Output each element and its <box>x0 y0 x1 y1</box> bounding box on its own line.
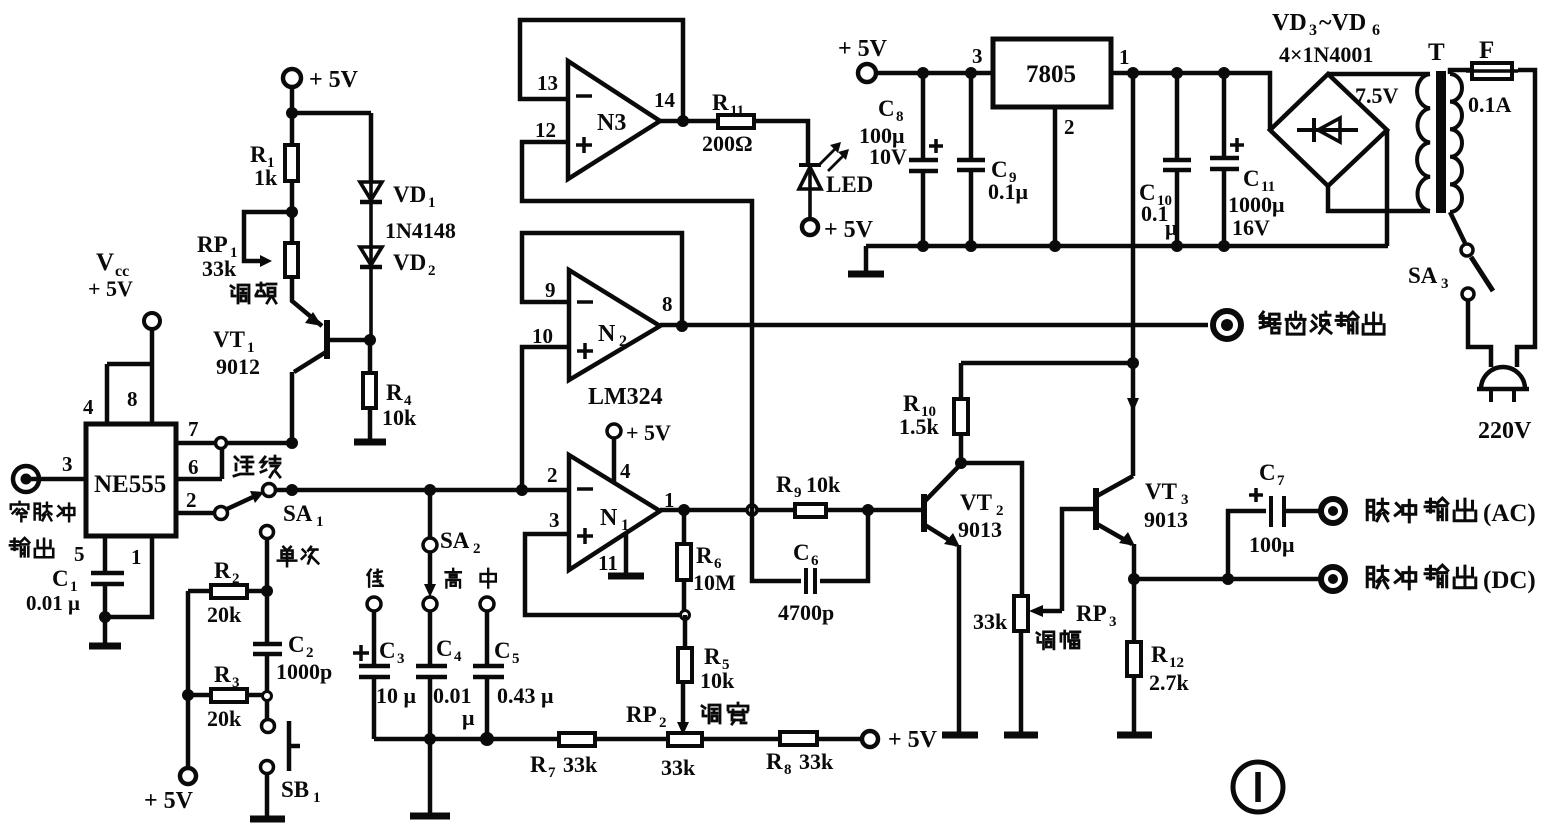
junction C10 <box>1171 67 1183 79</box>
+5V terminal top <box>283 69 301 87</box>
svg-text:8: 8 <box>127 387 138 411</box>
wire pin 4 <box>612 438 617 482</box>
svg-text:R: R <box>214 558 231 583</box>
svg-text:1: 1 <box>1119 45 1130 69</box>
capacitor C11 electrolytic <box>1210 73 1239 246</box>
wire Vcc to pins 4,8 <box>107 329 152 424</box>
capacitor C6 loop <box>752 510 868 581</box>
wire pin10 riser from main line <box>522 347 569 490</box>
potentiometer RP3 <box>1014 596 1028 631</box>
svg-text:3: 3 <box>397 651 405 667</box>
label 连续 (continuous) <box>234 456 280 477</box>
svg-text:C: C <box>379 638 396 663</box>
junction C11 <box>1218 67 1230 79</box>
transistor VT3 9013 <box>1096 363 1135 579</box>
contact circle pin2 (SA1 pole) <box>215 507 228 520</box>
wiper arrow RP1 <box>260 255 272 267</box>
op-amp N2 <box>569 270 660 380</box>
svg-text:16V: 16V <box>1232 215 1270 240</box>
svg-text:(AC): (AC) <box>1483 500 1536 527</box>
+5V terminal bus right <box>862 731 878 747</box>
svg-text:7.5V: 7.5V <box>1355 83 1399 108</box>
svg-text:(DC): (DC) <box>1483 567 1536 594</box>
junction C7 tap <box>1222 573 1234 585</box>
wire pin 1 down and left <box>105 536 152 617</box>
svg-text:VD: VD <box>393 250 426 275</box>
svg-text:LED: LED <box>826 172 873 197</box>
svg-text:6: 6 <box>188 455 199 479</box>
terminal pulse output DC <box>1321 567 1345 591</box>
svg-text:R: R <box>1151 642 1168 667</box>
junction R3 left <box>182 689 194 701</box>
wire RP1 wiper loop <box>244 212 292 261</box>
capacitor C5 <box>473 611 504 739</box>
svg-text:12: 12 <box>1169 655 1184 671</box>
capacitor C8 electrolytic <box>909 73 938 246</box>
wire N3 pin12 to N1 output <box>522 142 752 510</box>
resistor R9 <box>795 504 826 517</box>
junction top branch <box>286 107 298 119</box>
svg-text:1000p: 1000p <box>276 659 332 684</box>
resistor R11 <box>718 115 754 128</box>
resistor R6 <box>682 510 687 615</box>
label 脉冲输出 (AC) <box>1367 498 1536 527</box>
svg-text:11: 11 <box>730 103 744 119</box>
wire SA1 to main line <box>276 488 292 493</box>
contact circle SA1 throw <box>263 484 276 497</box>
svg-text:C: C <box>1243 166 1260 191</box>
potentiometer RP1 <box>285 243 298 277</box>
junction pin7/collector <box>286 437 298 449</box>
svg-text:1: 1 <box>313 790 321 806</box>
label VD3~VD6 <box>1272 10 1380 39</box>
svg-text:1.5k: 1.5k <box>899 414 940 439</box>
svg-text:7: 7 <box>548 765 556 781</box>
svg-text:2: 2 <box>619 333 627 350</box>
svg-text:2: 2 <box>473 541 481 557</box>
svg-text:+ 5V: + 5V <box>144 788 194 814</box>
wire 7805 pin2 to bus <box>1053 107 1058 246</box>
resistor R12 <box>1132 579 1137 733</box>
svg-text:VT: VT <box>1145 479 1177 504</box>
junction SA2 tap <box>424 484 436 496</box>
svg-text:4700p: 4700p <box>778 600 834 625</box>
wire +5V down <box>290 87 295 145</box>
svg-text:10 μ: 10 μ <box>376 683 417 708</box>
wire primary top to fuse <box>1450 70 1472 74</box>
svg-text:9013: 9013 <box>1144 507 1188 532</box>
wire sawtooth output line <box>660 323 1208 328</box>
svg-text:0.1A: 0.1A <box>1468 92 1512 117</box>
svg-text:0.1μ: 0.1μ <box>988 179 1029 204</box>
resistor R10 <box>959 363 964 463</box>
transformer core <box>1436 71 1446 213</box>
svg-text:3: 3 <box>1109 614 1117 630</box>
svg-text:C: C <box>494 638 511 663</box>
svg-text:R: R <box>250 142 267 167</box>
svg-text:R: R <box>903 391 920 416</box>
resistor R1 <box>285 145 298 181</box>
junction N3 output <box>677 115 689 127</box>
svg-text:10k: 10k <box>806 472 841 497</box>
svg-text:11: 11 <box>598 551 618 575</box>
terminal 单次 (single) <box>261 526 274 539</box>
capacitor C1 <box>91 573 124 617</box>
svg-text:R: R <box>530 752 547 777</box>
svg-text:C: C <box>52 566 69 591</box>
svg-text:3: 3 <box>1181 492 1189 508</box>
svg-text:2: 2 <box>547 463 558 487</box>
svg-text:33k: 33k <box>202 256 237 281</box>
svg-text:RP: RP <box>197 232 228 257</box>
svg-text:μ: μ <box>462 705 475 730</box>
ground R12 <box>1117 732 1152 739</box>
svg-text:SA: SA <box>283 501 313 526</box>
svg-text:R: R <box>776 472 793 497</box>
svg-text:12: 12 <box>535 118 556 142</box>
svg-text:33k: 33k <box>563 752 598 777</box>
svg-text:1: 1 <box>131 545 142 569</box>
ground R4 <box>354 439 386 446</box>
ground RP3 <box>1004 732 1038 739</box>
svg-text:1N4148: 1N4148 <box>385 218 456 243</box>
svg-text:10k: 10k <box>382 405 417 430</box>
op-amp N1 <box>569 455 660 570</box>
svg-text:~VD: ~VD <box>1319 10 1366 36</box>
plug 220V <box>1477 367 1529 402</box>
junction R5/R6/pin3 <box>681 611 690 620</box>
wire left rail R2-R3-+5V <box>186 591 191 768</box>
wire VT2 collector to RP3 <box>961 463 1022 596</box>
svg-text:8: 8 <box>784 762 792 778</box>
arrow on +V feed line <box>1127 398 1139 412</box>
svg-text:10V: 10V <box>869 144 907 169</box>
svg-text:4: 4 <box>454 649 462 665</box>
transformer T secondary winding <box>1417 74 1430 211</box>
label 调频 (frequency adjust) <box>231 283 276 303</box>
label 调宽 (width adjust) <box>702 703 748 724</box>
switch SA2 <box>428 490 433 538</box>
IC NE555 <box>86 424 176 536</box>
svg-text:3: 3 <box>1309 22 1317 39</box>
svg-text:5: 5 <box>74 542 85 566</box>
junction +V line <box>1127 357 1139 369</box>
terminal sawtooth output <box>1213 311 1241 339</box>
svg-text:SA: SA <box>1408 263 1438 288</box>
label 脉冲输出 (DC) <box>1367 565 1536 594</box>
svg-text:R: R <box>696 543 713 568</box>
wire main line to N1 pin2 <box>292 488 569 493</box>
svg-text:9012: 9012 <box>216 354 260 379</box>
svg-text:LM324: LM324 <box>588 384 663 410</box>
svg-text:RP: RP <box>1076 601 1107 626</box>
svg-text:2: 2 <box>659 715 667 731</box>
op-amp N3 <box>568 61 660 179</box>
switch SA1 blade <box>227 497 253 509</box>
label 锯齿波输出 (sawtooth output) <box>1260 312 1384 334</box>
pin 11 ground <box>624 533 629 574</box>
svg-text:N: N <box>598 321 616 347</box>
svg-text:1000μ: 1000μ <box>1228 192 1285 217</box>
capacitor C9 <box>957 73 985 246</box>
svg-text:2.7k: 2.7k <box>1149 670 1190 695</box>
wire N2 feedback loop pin9 <box>522 233 682 326</box>
RP3 wiper arrow <box>1040 609 1062 614</box>
wire pin7 contact to VT1 collector line <box>227 441 292 446</box>
junction N2 pin10 riser <box>516 484 528 496</box>
svg-text:N: N <box>600 505 618 531</box>
svg-text:NE555: NE555 <box>94 471 166 498</box>
svg-text:20k: 20k <box>207 706 242 731</box>
junction SA1/VT1 <box>286 484 298 496</box>
svg-text:9: 9 <box>794 485 802 501</box>
resistor R8 <box>780 732 817 745</box>
terminal pulse output AC <box>1321 499 1345 523</box>
svg-text:33k: 33k <box>973 609 1008 634</box>
svg-text:10: 10 <box>532 324 553 348</box>
bridge diode symbol <box>1297 118 1358 142</box>
wire SA3 to plug <box>1468 300 1491 367</box>
junction R3/C2/SB1 small contact <box>263 692 272 701</box>
svg-text:3: 3 <box>232 675 240 691</box>
svg-text:SA: SA <box>440 528 470 553</box>
wire fuse to right rail <box>1517 70 1535 367</box>
wire R11 to LED <box>754 121 808 164</box>
svg-text:+ 5V: + 5V <box>824 217 874 243</box>
transistor VT2 9013 <box>924 465 960 733</box>
wire pin 6 <box>176 448 222 479</box>
resistor R2 <box>188 589 267 594</box>
svg-text:μ: μ <box>1165 215 1178 240</box>
diode VD2 <box>360 247 382 340</box>
svg-text:9: 9 <box>545 278 556 302</box>
svg-text:V: V <box>96 249 114 276</box>
svg-text:2: 2 <box>186 488 197 512</box>
svg-text:R: R <box>766 749 783 774</box>
wire bridge AC top to secondary <box>1328 72 1430 77</box>
bridge rectifier VD3-VD6 <box>1270 74 1387 186</box>
wire pin 5 to C1 <box>103 536 108 571</box>
svg-text:4×1N4001: 4×1N4001 <box>1279 42 1373 67</box>
svg-text:N3: N3 <box>597 110 626 136</box>
junction C6 right / base <box>862 504 874 516</box>
svg-text:VD: VD <box>393 182 426 207</box>
pushbutton SB1 <box>265 701 270 719</box>
svg-text:R: R <box>712 90 729 115</box>
label 输出 (output) <box>10 538 53 557</box>
svg-text:14: 14 <box>654 88 676 112</box>
transistor VT1 9012 <box>292 277 370 443</box>
junction C10 ground <box>1171 240 1183 252</box>
pin 4 +5V terminal <box>607 424 621 438</box>
terminal 中 (middle) <box>480 597 494 611</box>
ground below C1 <box>103 617 108 645</box>
LED arrows <box>821 146 846 170</box>
resistor R3 <box>188 693 262 698</box>
wire 单次 down to R2 junction <box>265 539 270 591</box>
wire +5V rail to 7805 <box>876 71 993 76</box>
junction VT1 base / VD2 / R4 <box>364 334 376 346</box>
svg-text:+ 5V: + 5V <box>309 67 359 93</box>
terminal 低 (low) <box>367 597 381 611</box>
svg-text:3: 3 <box>62 452 73 476</box>
wire primary bottom to SA3 <box>1450 212 1465 243</box>
capacitor C7 <box>1228 511 1320 579</box>
svg-text:3: 3 <box>972 44 983 68</box>
svg-text:R: R <box>704 644 721 669</box>
junction C11 ground <box>1218 240 1230 252</box>
capacitor C4 <box>416 611 447 739</box>
capacitor C3 electrolytic <box>359 611 390 739</box>
label 调幅 (amplitude adjust) <box>1037 631 1080 649</box>
fuse F <box>1466 63 1518 79</box>
ground SB1 <box>250 816 285 823</box>
svg-text:7: 7 <box>1277 473 1285 489</box>
wire N1 output <box>660 508 795 513</box>
svg-text:5: 5 <box>512 651 520 667</box>
wire R1 to RP1 <box>290 181 295 243</box>
svg-text:R: R <box>214 662 231 687</box>
svg-text:2: 2 <box>1064 115 1075 139</box>
junction N3 pin12 line / C6 left <box>747 505 757 515</box>
wire emitter node to DC terminal <box>1134 577 1320 582</box>
svg-text:220V: 220V <box>1478 418 1532 444</box>
terminal 高 (high) <box>423 597 437 611</box>
wire 7805 output rail <box>1111 73 1270 130</box>
junction C8 <box>917 67 929 79</box>
junction C9 <box>965 67 977 79</box>
svg-text:13: 13 <box>537 71 558 95</box>
regulator 7805 <box>993 39 1111 107</box>
capacitor C2 <box>253 591 282 692</box>
svg-text:33k: 33k <box>661 755 696 780</box>
diode VD1 <box>360 182 382 247</box>
svg-text:100μ: 100μ <box>1249 532 1295 557</box>
svg-text:C: C <box>793 540 810 565</box>
junction R2/C2 <box>261 585 273 597</box>
label C1 <box>52 566 78 595</box>
svg-text:1: 1 <box>316 514 324 530</box>
capacitor C10 <box>1163 73 1191 246</box>
svg-text:+ 5V: + 5V <box>626 420 671 445</box>
svg-text:8: 8 <box>662 292 673 316</box>
wire R10 top to +V line <box>961 361 1133 366</box>
svg-text:10k: 10k <box>700 668 735 693</box>
Vcc terminal <box>144 313 160 329</box>
svg-text:6: 6 <box>1372 22 1380 39</box>
junction 7805 pin2 ground <box>1049 240 1061 252</box>
transformer T primary winding <box>1450 74 1462 212</box>
terminal narrow pulse output <box>13 466 39 492</box>
svg-text:2: 2 <box>232 571 240 587</box>
label SA1 <box>283 501 324 530</box>
svg-text:4: 4 <box>83 395 94 419</box>
svg-text:RP: RP <box>626 702 657 727</box>
svg-text:C: C <box>878 96 895 121</box>
junction C5 bus <box>480 732 494 746</box>
label 窄脉冲 (narrow pulse) <box>11 502 75 521</box>
svg-text:2: 2 <box>428 263 436 279</box>
svg-text:SB: SB <box>281 777 309 802</box>
wire pin 7 <box>176 441 216 446</box>
LED <box>799 165 821 219</box>
svg-text:1: 1 <box>428 195 436 211</box>
wire pin 3 to output terminal <box>30 477 86 482</box>
resistor R7 <box>559 733 595 746</box>
resistor R5 <box>683 615 688 648</box>
svg-text:R: R <box>386 380 403 405</box>
junction C1/pin1 <box>99 611 111 623</box>
resistor R4 <box>368 340 373 373</box>
node Vcc label <box>88 249 133 301</box>
junction R1 bottom <box>286 206 298 218</box>
wire +V vertical feed down to VT3 <box>1131 73 1136 363</box>
svg-text:7805: 7805 <box>1026 61 1076 88</box>
svg-text:+ 5V: + 5V <box>88 276 133 301</box>
svg-text:20k: 20k <box>207 602 242 627</box>
svg-text:+ 5V: + 5V <box>888 727 938 753</box>
svg-text:3: 3 <box>1441 276 1449 292</box>
svg-text:F: F <box>1479 37 1494 64</box>
wire pin 2 <box>176 511 213 516</box>
switch SA3 <box>1461 244 1473 256</box>
junction R6 top <box>678 504 690 516</box>
svg-text:T: T <box>1428 39 1445 66</box>
junction VT3 emitter node <box>1128 573 1140 585</box>
+5V terminal below LED <box>802 219 818 235</box>
wire branch to diode chain <box>292 113 371 182</box>
wire ground bus <box>866 244 1388 249</box>
junction C4 bus <box>424 733 436 745</box>
circled figure number 1 <box>1233 762 1283 812</box>
svg-text:C: C <box>1259 460 1276 485</box>
+5V terminal bottom left <box>180 768 196 784</box>
svg-text:C: C <box>288 632 305 657</box>
svg-text:1: 1 <box>621 517 629 534</box>
svg-text:9013: 9013 <box>958 517 1002 542</box>
svg-text:3: 3 <box>549 508 560 532</box>
svg-text:0.01 μ: 0.01 μ <box>26 591 80 615</box>
svg-text:4: 4 <box>620 459 631 483</box>
svg-text:7: 7 <box>188 417 199 441</box>
wire bridge AC bottom to secondary <box>1328 186 1430 211</box>
svg-text:6: 6 <box>811 553 819 569</box>
svg-text:VD: VD <box>1272 10 1307 36</box>
svg-text:0.43 μ: 0.43 μ <box>497 683 554 708</box>
wire bridge minus to ground bus <box>1385 130 1390 246</box>
junction N2 output <box>676 320 688 332</box>
svg-text:VT: VT <box>960 490 992 515</box>
svg-text:C: C <box>436 636 453 661</box>
svg-text:1k: 1k <box>254 165 278 190</box>
svg-text:200Ω: 200Ω <box>702 131 753 156</box>
junction C8 ground <box>917 240 929 252</box>
svg-text:VT: VT <box>213 327 245 352</box>
wire R9 to VT2 base <box>826 508 924 513</box>
junction collector feed <box>1127 67 1139 79</box>
svg-text:10M: 10M <box>693 570 736 595</box>
svg-text:33k: 33k <box>799 749 834 774</box>
junction C9 ground <box>965 240 977 252</box>
ground VT2 emitter <box>942 732 978 739</box>
contact circle pin7 <box>216 438 227 449</box>
wire pin 3 loop to R5/R6 node <box>525 534 685 615</box>
wire N3 feedback loop pin13 <box>520 20 683 121</box>
ground symbol bus <box>864 246 869 272</box>
potentiometer RP2 <box>668 733 702 746</box>
junction VT2 collector <box>955 457 967 469</box>
ground stem below C4 <box>428 739 433 814</box>
